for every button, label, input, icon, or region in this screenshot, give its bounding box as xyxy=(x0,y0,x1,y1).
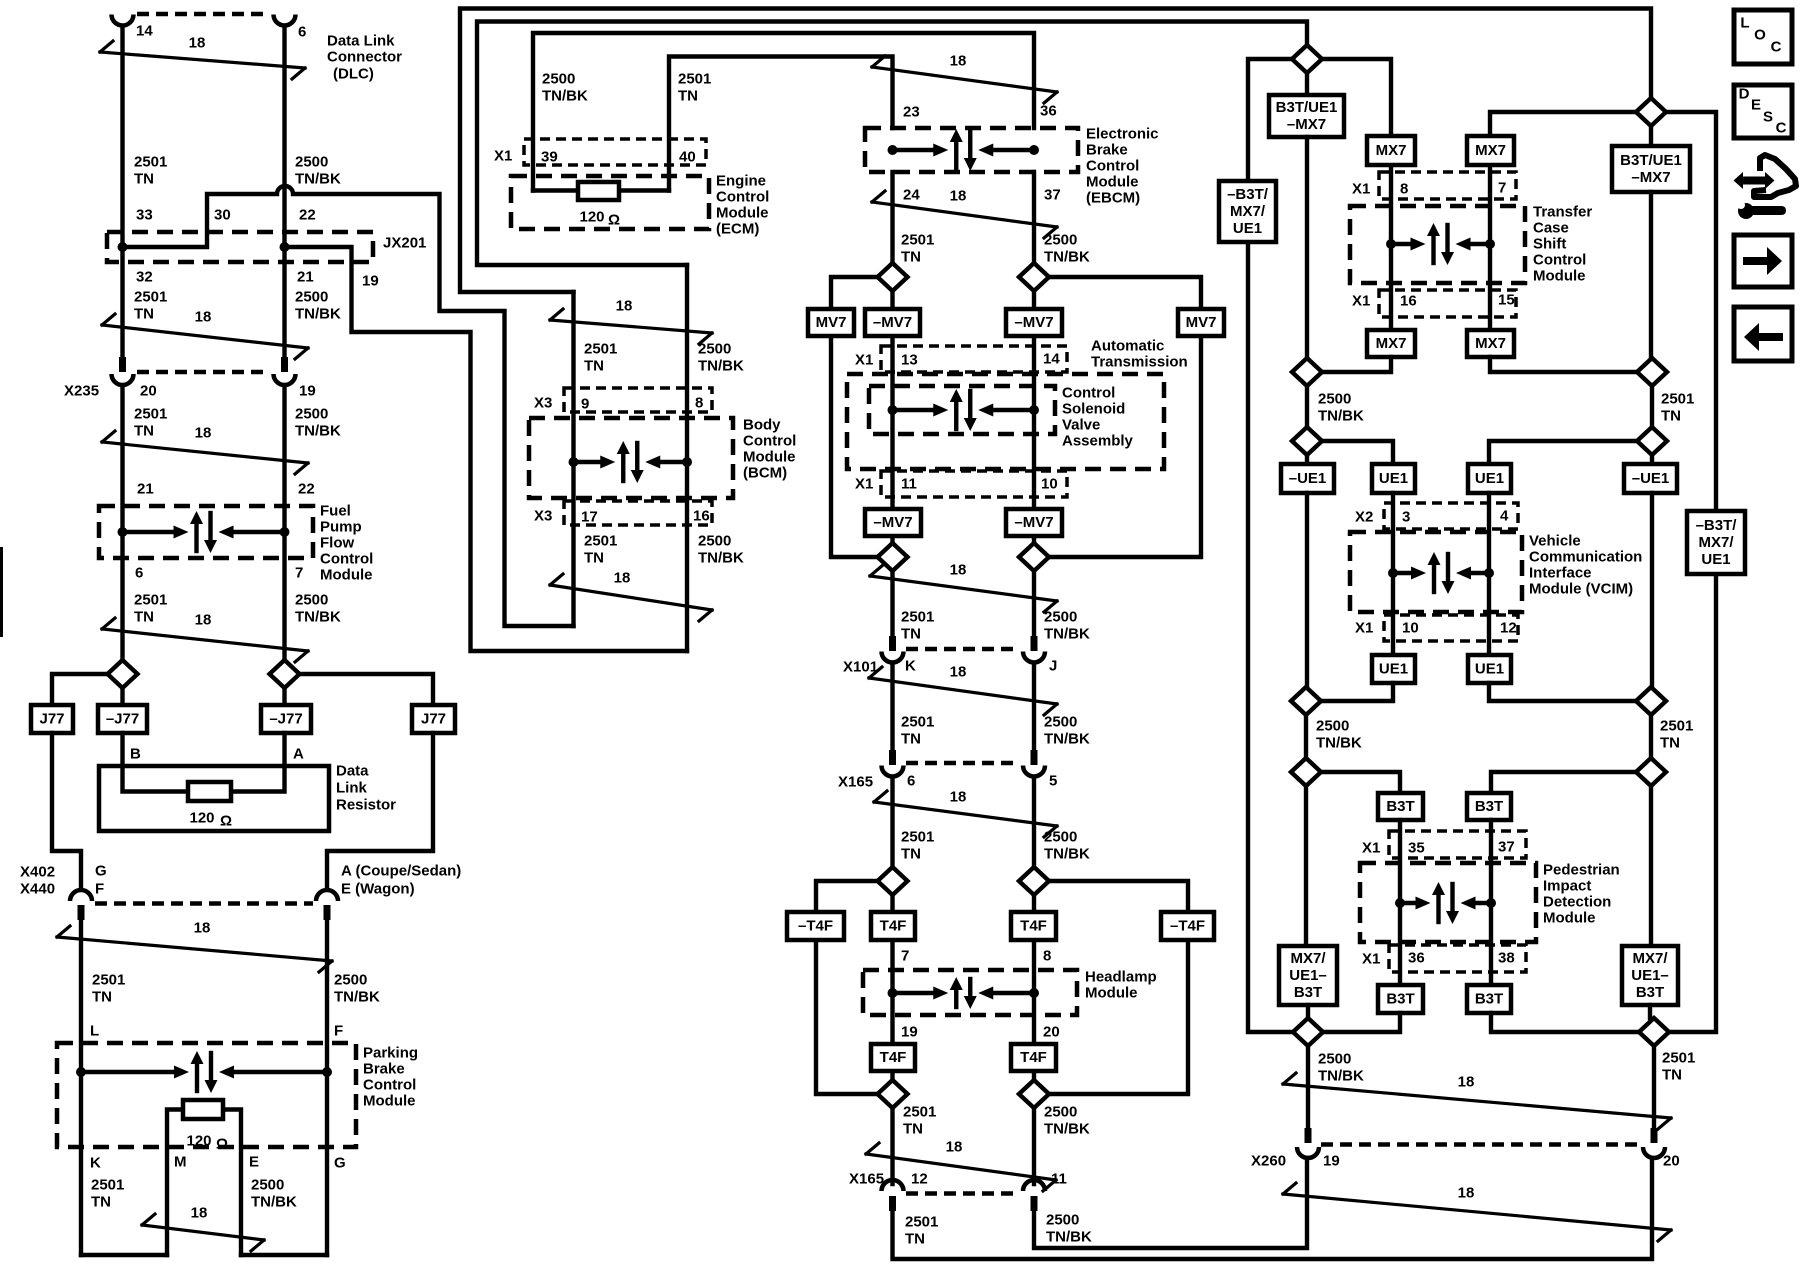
connector code box -B3T/MX7/UE1 (left) xyxy=(1219,181,1276,242)
svg-text:2501: 2501 xyxy=(905,1214,938,1231)
crossover: twisted pair 18ga below X260 xyxy=(1283,1183,1671,1241)
wire label 2501 TN (above X260) xyxy=(1662,1050,1695,1084)
svg-text:B3T/UE1: B3T/UE1 xyxy=(1276,99,1338,116)
serial data arrows (headlamp module) xyxy=(888,977,1040,1009)
wire: diamond to -UE1 (right) xyxy=(1650,455,1654,464)
wire label 2500 TN/BK (below EBCM) xyxy=(1044,232,1090,266)
wire: 2500 TN/BK through A/T control solenoid assembly xyxy=(1032,291,1036,543)
svg-text:E (Wagon): E (Wagon) xyxy=(341,881,415,898)
wire: ECM pin 40 to EBCM pin 23 (2501 TN) xyxy=(669,57,893,191)
svg-text:UE1: UE1 xyxy=(1475,470,1504,487)
connector X402 male terminal (right) xyxy=(324,905,331,920)
serial data arrows (pedestrian module) xyxy=(1395,882,1496,924)
svg-text:TN/BK: TN/BK xyxy=(1044,846,1090,863)
wire: BCM pin 8 to right section top bus (2500 TN/BK) xyxy=(477,22,1307,266)
value label 120 ohm (data link resistor) xyxy=(189,810,232,830)
svg-text:TN: TN xyxy=(1662,1067,1682,1084)
svg-text:8: 8 xyxy=(1043,948,1051,965)
svg-text:TN/BK: TN/BK xyxy=(295,609,341,626)
wire label 2501 TN (below BCM) xyxy=(584,533,617,567)
wire: JX201 splice pin 19 run to BCM pin 16 (2500 TN/BK) xyxy=(285,247,688,651)
crossover: twisted pair 18ga above X260 xyxy=(1283,1073,1671,1129)
svg-text:MX7: MX7 xyxy=(1376,142,1407,159)
splice diamond 2500 TN/BK (below transfer case) xyxy=(1292,358,1322,386)
svg-text:2500: 2500 xyxy=(1318,391,1351,408)
connector code box MX7 (top right) xyxy=(1467,136,1514,165)
svg-text:120: 120 xyxy=(189,810,214,827)
connector X1 strip (ECM) xyxy=(524,139,706,165)
wire: diamond to MX7 (transfer case pin 8 branch) xyxy=(1321,59,1391,136)
splice diamond on 2500 TN/BK (J77) xyxy=(270,660,300,688)
svg-text:Resistor: Resistor xyxy=(336,797,396,814)
svg-text:23: 23 xyxy=(903,104,920,121)
svg-text:Brake: Brake xyxy=(363,1061,405,1078)
svg-text:D: D xyxy=(1739,86,1750,103)
svg-text:Control: Control xyxy=(1086,158,1139,175)
svg-text:T4F: T4F xyxy=(1020,918,1047,935)
svg-text:Data Link: Data Link xyxy=(327,33,395,50)
wire: pedestrian module pin 35/36 vertical xyxy=(1398,820,1402,985)
module: Headlamp Module dashed box xyxy=(863,970,1077,1015)
wire: headlamp diamond to X165 pin 11 xyxy=(1032,1108,1036,1184)
svg-text:2500: 2500 xyxy=(542,71,575,88)
wire: 2500 TN/BK to X101 pin J xyxy=(1032,571,1036,637)
svg-text:Valve: Valve xyxy=(1062,417,1100,434)
wire: ECM internal resistor lead left xyxy=(533,188,578,192)
svg-text:TN: TN xyxy=(901,626,921,643)
wire label 2500 TN/BK (above BCM) xyxy=(698,341,744,375)
crossover: twisted pair 18ga above J77 splices xyxy=(102,612,308,663)
svg-text:38: 38 xyxy=(1498,950,1515,967)
wire: UE1 to diamond (2501 TN side) xyxy=(1489,683,1637,701)
wire: diamond to UE1 (VCIM pin 3 branch) xyxy=(1321,441,1393,464)
svg-text:MX7/: MX7/ xyxy=(1632,950,1668,967)
junction: JX201 splice on 2500 TN/BK xyxy=(280,242,290,252)
wire: -J77 to data link resistor pin B xyxy=(123,733,189,792)
wire label 2500 TN/BK (right rail) xyxy=(1318,391,1364,425)
svg-text:O: O xyxy=(1754,27,1766,44)
svg-text:2500: 2500 xyxy=(295,154,328,171)
splice diamond 2500 TN/BK (above X260) xyxy=(1293,1018,1323,1046)
connector X235 pin 20 male terminal xyxy=(119,357,126,372)
svg-text:Assembly: Assembly xyxy=(1062,433,1134,450)
wire: -B3T/MX7/UE1 down to bottom diamond (left outer rail) xyxy=(1248,242,1294,1032)
wire: diamond to B3T/UE1-MX7 box (right) xyxy=(1649,126,1653,146)
svg-text:2500: 2500 xyxy=(1044,829,1077,846)
svg-text:T4F: T4F xyxy=(880,1049,907,1066)
connector code box UE1 (VCIM pin 4) xyxy=(1468,464,1511,493)
svg-text:Electronic: Electronic xyxy=(1086,126,1159,143)
svg-text:Headlamp: Headlamp xyxy=(1085,969,1157,986)
splice diamond 2500 TN/BK (below -MV7) xyxy=(1019,543,1049,571)
svg-text:K: K xyxy=(905,658,916,675)
serial data arrows (transfer case module) xyxy=(1386,223,1495,265)
svg-text:TN: TN xyxy=(1661,408,1681,425)
svg-text:37: 37 xyxy=(1498,839,1515,856)
svg-text:2501: 2501 xyxy=(1662,1050,1695,1067)
svg-text:MV7: MV7 xyxy=(1186,314,1217,331)
splice diamond 2500 TN/BK (above T4F) xyxy=(1019,867,1049,895)
svg-text:TN/BK: TN/BK xyxy=(295,306,341,323)
svg-text:2500: 2500 xyxy=(1318,1051,1351,1068)
svg-text:TN: TN xyxy=(134,306,154,323)
wire label 2500 TN/BK (below VCIM) xyxy=(1316,718,1362,752)
wire: X165 pin 5 to headlamp splice diamond (2500 TN/BK) xyxy=(1032,778,1036,867)
svg-text:18: 18 xyxy=(189,35,206,52)
label: Electronic Brake Control Module (EBCM) xyxy=(1086,126,1159,207)
wire: J77 (far left) to X402 pin G/F xyxy=(52,733,81,888)
svg-text:TN: TN xyxy=(1660,735,1680,752)
module: Electronic Brake Control Module dashed box xyxy=(865,128,1078,172)
crossover: twisted pair 18ga below EBCM xyxy=(872,188,1057,239)
svg-text:UE1: UE1 xyxy=(1379,470,1408,487)
connector code box MV7 (far right) xyxy=(1178,309,1224,336)
svg-text:B: B xyxy=(130,746,141,763)
svg-text:8: 8 xyxy=(695,395,703,412)
crossover: twisted pair 18ga below DLC xyxy=(100,35,305,80)
svg-text:19: 19 xyxy=(901,1024,918,1041)
svg-text:–MV7: –MV7 xyxy=(873,514,912,531)
connector X165 dashed body line xyxy=(906,761,1020,765)
svg-text:2501: 2501 xyxy=(134,406,167,423)
wire: BCM pin 9/17 vertical (2501 TN) xyxy=(571,292,575,626)
wire: diamond to X260 pin 20 xyxy=(1652,1046,1656,1129)
wire: MX7/UE1-B3T down to diamond (right) xyxy=(1648,1005,1652,1018)
svg-text:TN/BK: TN/BK xyxy=(334,989,380,1006)
wire label 2501 TN (above X165) xyxy=(901,714,934,748)
wire label 2501 TN (below JX201) xyxy=(134,289,167,323)
connector X101 dashed body line xyxy=(906,647,1020,651)
svg-text:20: 20 xyxy=(140,383,157,400)
svg-text:TN: TN xyxy=(901,846,921,863)
svg-text:2500: 2500 xyxy=(1044,232,1077,249)
svg-text:2501: 2501 xyxy=(901,714,934,731)
serial data arrows (parking brake module) xyxy=(76,1051,332,1093)
svg-text:13: 13 xyxy=(901,352,918,369)
svg-text:11: 11 xyxy=(901,476,917,493)
connector X1 strip (VCIM) xyxy=(1384,615,1518,641)
svg-text:TN: TN xyxy=(92,989,112,1006)
svg-text:3: 3 xyxy=(1402,509,1410,526)
splice diamond 2501 TN (above B3T) xyxy=(1636,758,1666,786)
svg-text:6: 6 xyxy=(135,565,143,582)
svg-text:19: 19 xyxy=(1323,1153,1340,1170)
wire: MX7 to diamond (2500 TN/BK side) xyxy=(1322,357,1391,372)
wire: VCIM pin 4/12 vertical xyxy=(1487,493,1491,655)
wire: MV7 branch loop right (2500 TN/BK) xyxy=(1049,277,1202,557)
svg-text:11: 11 xyxy=(1051,1171,1067,1188)
svg-text:Communication: Communication xyxy=(1529,549,1642,566)
svg-text:Control: Control xyxy=(1533,252,1586,269)
svg-text:2500: 2500 xyxy=(1044,609,1077,626)
svg-text:Pedestrian: Pedestrian xyxy=(1543,862,1620,879)
svg-text:30: 30 xyxy=(214,207,231,224)
svg-text:14: 14 xyxy=(136,23,153,40)
svg-text:Control: Control xyxy=(716,189,769,206)
wire: ECM pin 39 to EBCM pin 36 (2500 TN/BK) xyxy=(533,33,1034,191)
wire label 2500 TN/BK (below headlamp) xyxy=(1044,1104,1090,1138)
wire: B3T/UE1-MX7 box down to transfer-case diamond (2500 TN/BK rail) xyxy=(1305,137,1309,358)
connector X402/X440 cavity (left) xyxy=(70,890,92,901)
wire: rail between diamonds (2501 TN) xyxy=(1650,386,1654,427)
svg-text:18: 18 xyxy=(616,298,633,315)
connector code box MX7/UE1--B3T (left) xyxy=(1279,946,1337,1005)
module: Transfer Case Shift Control Module dashed box xyxy=(1350,206,1525,283)
svg-text:A: A xyxy=(293,746,304,763)
connector code box T4F (left bottom) xyxy=(871,1044,915,1071)
wire: X101 J to X165 pin 5 (2500 TN/BK) xyxy=(1032,664,1036,751)
wire: pedestrian module pin 37/38 vertical xyxy=(1489,820,1493,985)
svg-text:Data: Data xyxy=(336,763,369,780)
connector X260 male terminal 20 xyxy=(1651,1128,1658,1143)
label: Parking Brake Control Module xyxy=(363,1045,418,1110)
svg-text:7: 7 xyxy=(295,565,303,582)
wire: 2500 TN/BK from X235 to splice diamond xyxy=(282,386,286,661)
wire: X165 pin 6 to headlamp splice diamond (2501 TN) xyxy=(890,778,894,867)
svg-text:18: 18 xyxy=(191,1205,208,1222)
serial data arrows (VCIM) xyxy=(1388,552,1494,594)
connector code box MX7 (bottom right) xyxy=(1467,330,1514,357)
label: Engine Control Module (ECM) xyxy=(716,173,769,238)
svg-text:18: 18 xyxy=(195,309,212,326)
svg-text:–MV7: –MV7 xyxy=(873,314,912,331)
svg-text:TN: TN xyxy=(134,609,154,626)
connector DLC cavity pin 6 xyxy=(274,15,296,26)
svg-text:B3T: B3T xyxy=(1386,798,1414,815)
wire label 2501 TN (below VCIM) xyxy=(1660,718,1693,752)
junction: JX201 splice on 2501 TN xyxy=(118,242,128,252)
connector X1 strip bottom (A/T) xyxy=(881,471,1067,497)
svg-text:MX7: MX7 xyxy=(1376,335,1407,352)
svg-text:UE1–: UE1– xyxy=(1631,967,1669,984)
svg-text:120: 120 xyxy=(579,209,604,226)
connector code box -MV7 (right bottom) xyxy=(1006,509,1062,536)
wire label 2501 TN (above X101) xyxy=(901,609,934,643)
connector code box T4F (right bottom) xyxy=(1011,1044,1056,1071)
wire: -T4F branch loop left (2501 TN) xyxy=(816,881,878,1094)
svg-text:120: 120 xyxy=(186,1133,211,1150)
svg-text:Control: Control xyxy=(363,1077,416,1094)
connector code box -J77 (right) xyxy=(261,705,311,733)
svg-text:Flow: Flow xyxy=(320,535,354,552)
wire label 2500 TN/BK (below fuel pump) xyxy=(295,592,341,626)
connector code box B3T (pin 37) xyxy=(1467,793,1511,820)
svg-text:Ω: Ω xyxy=(220,813,232,830)
svg-text:TN/BK: TN/BK xyxy=(1044,1121,1090,1138)
svg-text:2500: 2500 xyxy=(295,592,328,609)
svg-text:B3T: B3T xyxy=(1386,991,1414,1008)
svg-text:Ω: Ω xyxy=(608,212,620,229)
svg-text:Detection: Detection xyxy=(1543,894,1611,911)
module: Parking Brake Control Module dashed box xyxy=(57,1043,356,1147)
svg-text:TN: TN xyxy=(678,88,698,105)
svg-text:Module: Module xyxy=(1533,268,1586,285)
svg-text:2501: 2501 xyxy=(903,1104,936,1121)
svg-text:Body: Body xyxy=(743,417,781,434)
wire label 2500 TN/BK (above headlamp) xyxy=(1044,829,1090,863)
connector X165 male terminal 12 xyxy=(889,1196,896,1211)
svg-text:16: 16 xyxy=(1400,293,1417,310)
svg-text:2501: 2501 xyxy=(1660,718,1693,735)
connector X165 cavity 5 xyxy=(1023,766,1045,777)
svg-text:T4F: T4F xyxy=(880,918,907,935)
connector code box -MV7 (left top) xyxy=(865,309,920,336)
connector X101 male terminal K xyxy=(889,636,896,651)
wire label 2501 TN (right rail) xyxy=(1661,391,1694,425)
svg-text:L: L xyxy=(1740,15,1749,32)
svg-text:36: 36 xyxy=(1408,950,1425,967)
wire label 2500 TN/BK (below JX201) xyxy=(295,289,341,323)
svg-text:–MV7: –MV7 xyxy=(1014,514,1053,531)
svg-text:6: 6 xyxy=(298,24,306,41)
wire: rail between diamonds above pedestrian module (left) xyxy=(1304,715,1308,758)
svg-text:5: 5 xyxy=(1049,773,1057,790)
connector X235 cavity pin 19 xyxy=(274,374,296,385)
svg-text:4: 4 xyxy=(1500,508,1509,525)
svg-text:B3T: B3T xyxy=(1475,798,1503,815)
svg-text:TN: TN xyxy=(901,731,921,748)
svg-text:20: 20 xyxy=(1043,1024,1060,1041)
wire: -T4F branch loop right (2500 TN/BK) xyxy=(1049,881,1189,1094)
connector code box B3T/UE1--MX7 (right) xyxy=(1612,146,1690,192)
svg-text:2500: 2500 xyxy=(334,972,367,989)
svg-text:33: 33 xyxy=(136,207,153,224)
connector X165 male terminal 6 xyxy=(889,750,896,765)
svg-text:21: 21 xyxy=(137,481,154,498)
resistor R 120 ohm (parking brake terminating) xyxy=(183,1100,223,1119)
svg-text:S: S xyxy=(1763,109,1773,126)
svg-text:TN/BK: TN/BK xyxy=(295,171,341,188)
svg-text:Impact: Impact xyxy=(1543,878,1591,895)
label: Transfer Case Shift Control Module xyxy=(1533,204,1592,285)
wire: diamond to B3T (pedestrian pin 35 branch) xyxy=(1320,772,1400,793)
connector X165 male terminal 5 xyxy=(1031,750,1038,765)
wire label 2500 TN/BK (upper left) xyxy=(295,154,341,188)
crossover: twisted pair 18ga at parking brake resistor loop xyxy=(142,1205,264,1252)
wire label 2501 TN (below fuel pump) xyxy=(134,592,167,626)
svg-text:MX7/: MX7/ xyxy=(1230,203,1266,220)
wire: rail between diamonds (2500 TN/BK) xyxy=(1305,386,1309,427)
data link resistor assembly outline box xyxy=(99,766,329,831)
wire: ECM internal resistor lead right xyxy=(619,188,669,192)
svg-text:Transfer: Transfer xyxy=(1533,204,1592,221)
connector X101 cavity K xyxy=(882,652,904,663)
svg-text:MV7: MV7 xyxy=(816,314,847,331)
splice pack JX201 dashed box xyxy=(107,232,373,262)
connector code box B3T (pin 38) xyxy=(1467,985,1511,1013)
wire: 2501 TN from X402 through parking brake module xyxy=(79,920,83,1255)
connector code box -UE1 (left) xyxy=(1281,464,1334,493)
crossover: twisted pair 18ga above X235 xyxy=(102,309,308,360)
svg-text:TN: TN xyxy=(905,1231,925,1248)
svg-text:A (Coupe/Sedan): A (Coupe/Sedan) xyxy=(341,863,461,880)
svg-text:Module: Module xyxy=(1086,174,1139,191)
module: Pedestrian Impact Detection Module dashed box xyxy=(1360,863,1536,942)
connector code box -J77 (left) xyxy=(98,705,147,733)
connector X1 strip top (pedestrian module) xyxy=(1389,831,1526,858)
svg-text:7: 7 xyxy=(901,948,909,965)
svg-text:2500: 2500 xyxy=(1046,1212,1079,1229)
svg-text:G: G xyxy=(95,863,107,880)
svg-text:JX201: JX201 xyxy=(383,235,426,252)
svg-text:TN: TN xyxy=(584,550,604,567)
svg-text:E: E xyxy=(1751,97,1761,114)
icon box: DESC xyxy=(1734,85,1792,138)
connector X235 pin 19 male terminal xyxy=(281,357,288,372)
connector code box UE1 (VCIM pin 3) xyxy=(1372,464,1415,493)
svg-text:Control: Control xyxy=(320,551,373,568)
svg-text:22: 22 xyxy=(299,207,316,224)
label: Control Solenoid Valve Assembly xyxy=(1062,385,1134,450)
svg-text:Module: Module xyxy=(743,449,796,466)
svg-text:X1: X1 xyxy=(494,148,512,165)
splice diamond 2500 TN/BK (above B3T) xyxy=(1291,758,1321,786)
wire: MX7/UE1-B3T down to diamond (left) xyxy=(1306,1005,1310,1018)
resistor R 120 ohm (ECM terminating) xyxy=(578,182,619,200)
svg-text:TN/BK: TN/BK xyxy=(698,358,744,375)
svg-text:32: 32 xyxy=(136,269,153,286)
connector X402/X440 cavity (right) xyxy=(316,890,338,901)
svg-text:18: 18 xyxy=(950,188,967,205)
svg-text:2501: 2501 xyxy=(134,592,167,609)
splice diamond 2501 TN (below VCIM) xyxy=(1636,687,1666,715)
svg-text:TN/BK: TN/BK xyxy=(251,1194,297,1211)
svg-text:24: 24 xyxy=(903,187,920,204)
connector code box J77 (far right) xyxy=(412,705,455,733)
svg-text:X3: X3 xyxy=(534,508,552,525)
module: Control Solenoid Valve Assembly dashed box xyxy=(869,386,1055,434)
wire: diamond to MX7/UE1-B3T (right) xyxy=(1649,786,1653,946)
connector code box B3T/UE1--MX7 (left) xyxy=(1269,95,1344,137)
connector X3 strip bottom (BCM) xyxy=(564,501,712,525)
wire: BCM pin 9 to right section top bus (2501 TN) xyxy=(460,9,1651,293)
svg-text:X1: X1 xyxy=(1355,620,1373,637)
serial data arrows (EBCM) xyxy=(888,129,1040,171)
connector X1 strip bottom (pedestrian module) xyxy=(1389,945,1526,972)
connector code box -T4F (far right) xyxy=(1161,912,1214,940)
svg-text:Module: Module xyxy=(363,1093,416,1110)
module: Engine Control Module dashed box xyxy=(511,176,709,229)
svg-text:F: F xyxy=(334,1023,343,1040)
svg-text:2501: 2501 xyxy=(1661,391,1694,408)
svg-text:X402: X402 xyxy=(20,864,55,881)
svg-text:8: 8 xyxy=(1400,181,1408,198)
splice diamond 2500 TN/BK (above -MV7) xyxy=(1019,263,1049,291)
svg-text:18: 18 xyxy=(194,920,211,937)
svg-text:MX7/: MX7/ xyxy=(1290,950,1326,967)
wire label 2501 TN (above headlamp) xyxy=(901,829,934,863)
label: Data Link Resistor xyxy=(336,763,396,814)
connector X101 male terminal J xyxy=(1031,636,1038,651)
wire: 2501 TN from DLC pin 14 down to X235 pin 20 xyxy=(120,26,124,357)
svg-text:2500: 2500 xyxy=(1044,714,1077,731)
svg-text:35: 35 xyxy=(1408,840,1425,857)
connector X402 male terminal (left) xyxy=(78,905,85,920)
splice diamond 2501 TN (above -MV7) xyxy=(878,263,908,291)
wire: MX7 to diamond (2501 TN side) xyxy=(1490,357,1637,372)
svg-text:–UE1: –UE1 xyxy=(1289,470,1327,487)
svg-text:X235: X235 xyxy=(64,383,99,400)
wire: B3T/UE1-MX7 box down to transfer-case diamond (2501 TN rail) xyxy=(1649,192,1653,358)
svg-text:J: J xyxy=(1049,658,1057,675)
svg-text:9: 9 xyxy=(581,396,589,413)
wire: transfer case pin 7/15 vertical xyxy=(1488,165,1492,330)
wire: rail between diamonds above pedestrian module (right) xyxy=(1649,715,1653,758)
connector X260 dashed body line xyxy=(1321,1142,1641,1146)
connector code box -T4F (far left) xyxy=(787,912,844,940)
connector X1 strip bottom (transfer case) xyxy=(1379,290,1516,317)
svg-text:2500: 2500 xyxy=(1316,718,1349,735)
